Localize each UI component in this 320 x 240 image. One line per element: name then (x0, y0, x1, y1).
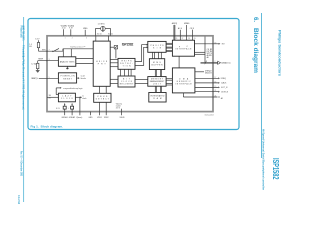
pin label VCC(3V3) (68, 25, 74, 29)
wire PHY-DET 1 (110, 58, 118, 60)
svg-text:ANALOG TX/RX: ANALOG TX/RX (60, 60, 75, 63)
svg-text:17: 17 (215, 77, 217, 79)
svg-text:2: 2 (72, 37, 73, 39)
footer rule (23, 17, 25, 202)
svg-text:18: 18 (215, 42, 217, 44)
svg-text:5: 5 (49, 77, 50, 79)
block HS/FS DETECTION (118, 58, 135, 69)
pin number ticks (49, 37, 217, 97)
wire into LAZY CLOCK (47, 96, 58, 98)
svg-text:blocks: blocks (81, 78, 86, 80)
svg-text:VBUS: VBUS (120, 117, 126, 119)
wire INT (195, 43, 221, 45)
svg-text:EOT_N: EOT_N (221, 87, 228, 89)
svg-text:27: 27 (182, 38, 184, 40)
wire VREG stub (84, 30, 86, 36)
wire PHY-DET 3 (110, 66, 118, 68)
wire EOT (195, 87, 220, 89)
bus MMU verticals (155, 70, 161, 77)
pin rows left of LAZY CLOCK (49, 95, 52, 99)
wire CS stub (190, 28, 195, 40)
svg-text:ISP1582: ISP1582 (122, 43, 134, 47)
svg-text:MODE0: MODE0 (184, 23, 189, 25)
svg-text:+: + (68, 108, 69, 110)
resistor RPU 1.5k (29, 40, 39, 48)
ground stub under ANALOG TX/RX (66, 66, 69, 69)
labels near pad squares (56, 108, 69, 110)
wire DIOR (195, 91, 220, 93)
wire uC IF to DMA vertical (178, 56, 180, 68)
wires SIE to MMU-IF (166, 43, 172, 51)
svg-text:DIOR_N: DIOR_N (221, 92, 228, 94)
svg-text:RECOVERY: RECOVERY (120, 83, 134, 85)
block microcontroller interface (172, 40, 194, 56)
wire LAZY CLOCK output (75, 96, 82, 115)
svg-text:Rev. 02 — 9 December 2003: Rev. 02 — 9 December 2003 (19, 151, 22, 176)
wires MMU to DMA (166, 79, 172, 85)
bottom pin labels (61, 116, 125, 119)
junction RREF at chip edge (46, 60, 47, 61)
block MEMORY MANAGEMENT UNIT (148, 77, 166, 87)
svg-text:suspend/wakeup logic: suspend/wakeup logic (63, 88, 83, 90)
svg-text:VSS2: VSS2 (104, 117, 109, 119)
block ANALOG TX/RX (58, 57, 75, 67)
svg-text:clock: clock (82, 98, 86, 100)
wires BCR right (135, 80, 148, 84)
svg-text:10: 10 (210, 55, 212, 57)
wire DP stub into ANALOG (62, 49, 64, 57)
svg-text:A0: A0 (207, 56, 209, 59)
svg-text:UNIT: UNIT (153, 84, 162, 86)
pad square E (63, 103, 66, 115)
svg-text:DETECT: DETECT (96, 99, 110, 101)
wire collector vertical (204, 37, 206, 63)
block DMA generic interface (172, 68, 195, 93)
suspend trigger symbol (110, 46, 118, 59)
wire PHY xtal stub 2 (107, 36, 109, 41)
svg-text:GNDA1: GNDA1 (61, 116, 67, 119)
pin label VCC(1V8) (61, 25, 67, 29)
wire VCC(1V8) stub (63, 29, 65, 36)
wire RREF (38, 60, 59, 62)
wires PHY to BCR (110, 79, 118, 83)
svg-text:ISP1582: ISP1582 (271, 158, 281, 180)
chip outline U1 ISP1582 (47, 36, 213, 112)
block HS/FS PHY (tall) (93, 41, 110, 86)
block PHILIPS SIE (148, 41, 166, 52)
svg-text:A1: A1 (221, 97, 223, 100)
wire VBUS pin (121, 109, 123, 115)
wires VBUS DETECT bottom stubs (99, 102, 106, 115)
svg-text:V(term): V(term) (76, 116, 82, 119)
svg-text:Philips Semiconductors: Philips Semiconductors (277, 30, 281, 76)
wire RESET_N (39, 77, 58, 79)
svg-text:29: 29 (194, 38, 196, 40)
svg-text:14 of 64: 14 of 64 (17, 195, 20, 205)
label SoftConnect note (116, 103, 122, 110)
header rule (261, 13, 263, 158)
label to all blocks (81, 75, 86, 81)
svg-text:26: 26 (49, 98, 51, 100)
svg-text:X2 11: X2 11 (108, 34, 113, 36)
svg-text:Block diagram: Block diagram (252, 28, 258, 73)
svg-text:BUFFER: BUFFER (152, 65, 164, 67)
svg-text:002aaa604: 002aaa604 (205, 115, 214, 117)
crystal X1 12 MHz (95, 24, 110, 32)
svg-text:3: 3 (49, 59, 50, 61)
wire softconnect to PHY (63, 48, 93, 50)
svg-text:12 kΩ: 12 kΩ (31, 63, 36, 65)
data bus (201, 61, 221, 65)
control signal list (207, 49, 213, 59)
softconnect switch (52, 48, 63, 51)
label wakeup out (82, 95, 86, 101)
block POWER-ON RESET (58, 73, 76, 83)
svg-text:DATA[15:0]: DATA[15:0] (221, 62, 231, 65)
wire PHY xtal stub 1 (95, 36, 97, 41)
block INTEGRATED RAM (149, 93, 166, 103)
wires DET to BCR verticals (121, 69, 132, 76)
wires uC IF right (195, 52, 206, 54)
svg-text:AD[7:0]: AD[7:0] (172, 22, 178, 25)
figure frame (28, 19, 239, 130)
svg-text:12 MHz: 12 MHz (98, 24, 105, 26)
svg-text:CLOCK: CLOCK (61, 98, 74, 100)
svg-text:24: 24 (215, 96, 217, 98)
svg-text:21: 21 (215, 90, 217, 92)
wire POR output arrow (77, 77, 80, 79)
svg-text:DREQ: DREQ (221, 78, 227, 80)
wire XTAL2 (110, 29, 112, 36)
junction RPU at chip edge (46, 51, 47, 52)
wire DACK (195, 82, 220, 84)
pad square S (71, 103, 74, 115)
wire RPU lead (38, 48, 40, 52)
wire DMA config stub (195, 71, 204, 73)
svg-text:23: 23 (210, 73, 212, 75)
wire ALE stub (178, 27, 183, 40)
block BIT CLOCK RECOVERY (118, 76, 135, 87)
label DMA pins (205, 70, 212, 74)
svg-text:3, 14: 3, 14 (62, 27, 66, 29)
wire suspend arrow (56, 87, 61, 95)
wire PHY-DET 2 (110, 62, 118, 64)
svg-text:25: 25 (176, 38, 178, 40)
wire suspend out (183, 93, 219, 98)
svg-text:6.: 6. (252, 17, 258, 22)
wire ANALOG to PHY lower (76, 62, 93, 64)
svg-text:INTERFACE: INTERFACE (176, 83, 193, 86)
ground symbol for RREF (36, 69, 40, 72)
svg-text:RESET: RESET (63, 78, 72, 80)
svg-text:16: 16 (215, 81, 217, 83)
svg-text:DACK: DACK (221, 82, 227, 85)
svg-text:INTERFACE: INTERFACE (175, 48, 192, 51)
svg-text:28: 28 (188, 38, 190, 40)
wire RPU to chip (39, 50, 63, 52)
bus MMU-RAM verticals (155, 86, 161, 92)
svg-text:1: 1 (65, 37, 66, 39)
svg-text:RAM: RAM (153, 97, 161, 100)
svg-text:7: 7 (49, 50, 50, 52)
svg-text:Product data: Product data (19, 26, 22, 38)
block LAZY CLOCK (58, 93, 75, 102)
svg-text:Fig 1. Block diagram.: Fig 1. Block diagram. (31, 125, 64, 129)
svg-text:15: 15 (215, 86, 217, 88)
svg-text:SoftConnect™: SoftConnect™ (70, 45, 85, 48)
block MMU upper (149, 59, 164, 70)
resistor RREF 12k (37, 61, 39, 69)
wire ANALOG to PHY upper (76, 58, 93, 60)
block VBUS DETECT (94, 93, 111, 102)
svg-text:HS/FS: HS/FS (96, 61, 108, 63)
svg-text:POWER-ON: POWER-ON (61, 76, 76, 78)
svg-text:9, 19: 9, 19 (69, 27, 73, 29)
svg-text:Hi-Speed Universal Serial Bus: Hi-Speed Universal Serial Bus peripheral… (261, 129, 265, 190)
wire DM stub into ANALOG (70, 49, 72, 57)
wires VBUS DETECT top stubs (99, 86, 106, 93)
svg-text:GND: GND (89, 117, 94, 119)
svg-text:X1 10: X1 10 (97, 34, 102, 36)
bus SIE-MMU verticals (153, 52, 162, 58)
wires DET to SIE elbows (135, 44, 148, 66)
wire MODE stub (184, 23, 189, 40)
wire DREQ (195, 77, 220, 79)
wire VCC(3V3) stub (70, 29, 72, 36)
svg-text:© Koninklijke Philips Electron: © Koninklijke Philips Electronics N.V. 2… (22, 45, 25, 110)
svg-text:RESET_N: RESET_N (31, 78, 38, 80)
wire gnd stub (90, 112, 92, 116)
wire XTAL1 (94, 29, 96, 36)
bus stub AD[7:0] (172, 22, 178, 40)
svg-text:GNDA2: GNDA2 (69, 116, 75, 119)
svg-text:VSS1: VSS1 (97, 117, 102, 119)
